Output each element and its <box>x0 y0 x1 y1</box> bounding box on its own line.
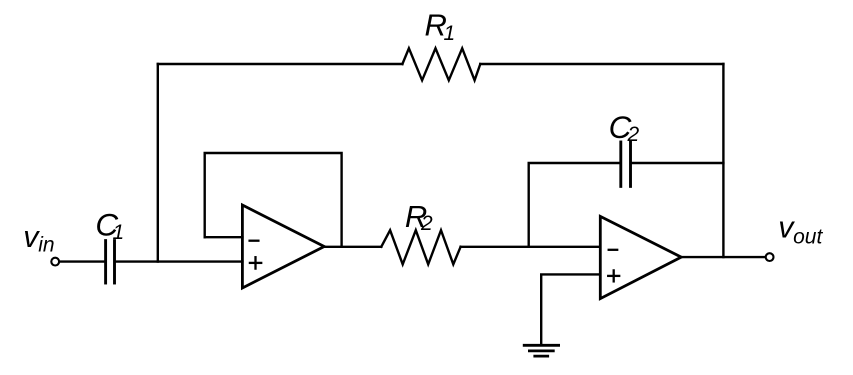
node vout terminal <box>766 253 774 261</box>
label vout <box>778 210 823 248</box>
svg-text:2: 2 <box>420 212 433 235</box>
wire <box>158 63 403 65</box>
wire <box>529 163 621 247</box>
wire <box>461 246 601 248</box>
wire <box>60 260 104 262</box>
wire <box>324 246 381 248</box>
wire <box>205 236 243 238</box>
op-amp U2 <box>600 216 681 298</box>
capacitor C1 <box>106 241 115 283</box>
svg-text:out: out <box>793 225 823 248</box>
wire <box>681 256 765 258</box>
svg-text:1: 1 <box>444 22 456 45</box>
resistor R2 <box>381 230 460 264</box>
wire <box>541 274 600 344</box>
label C1 <box>95 206 124 244</box>
ground <box>524 345 558 356</box>
wire <box>480 63 723 65</box>
svg-text:1: 1 <box>113 221 125 244</box>
wire <box>722 64 724 257</box>
wire <box>157 64 159 262</box>
capacitor C2 <box>621 142 631 186</box>
svg-text:in: in <box>38 234 54 257</box>
label vin <box>23 220 54 257</box>
label C2 <box>609 109 640 146</box>
wire <box>205 153 342 247</box>
label R2 <box>405 199 433 235</box>
wire <box>632 162 724 164</box>
node vin terminal <box>51 258 59 266</box>
label R1 <box>425 8 456 46</box>
op-amp U1 <box>242 205 324 288</box>
wire <box>116 260 242 262</box>
resistor R1 <box>402 48 480 80</box>
svg-text:2: 2 <box>627 123 640 146</box>
